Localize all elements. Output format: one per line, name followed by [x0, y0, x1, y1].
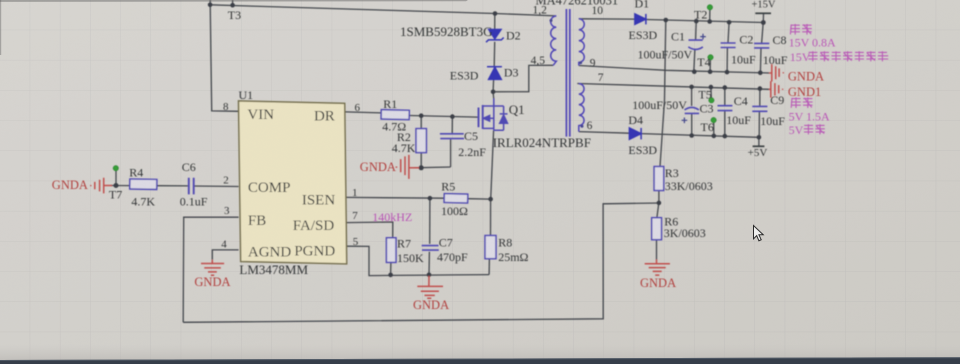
wire C5 top stub	[451, 117, 453, 134]
ground GND1 right side	[769, 81, 783, 98]
wire T5 stem	[710, 87, 712, 98]
wire R8 top lead	[490, 199, 492, 235]
ground GNDA right side	[769, 64, 784, 81]
ground GNDA below C7	[417, 276, 443, 298]
wire DR pin to R1	[346, 112, 382, 113]
junction C2 bottom	[725, 70, 730, 75]
wire D2 top lead	[494, 14, 496, 30]
mouse cursor	[754, 226, 764, 241]
wire pin 6 to D4	[579, 132, 630, 134]
capacitor C5 plates	[440, 134, 464, 139]
capacitor C3 plus sign	[682, 118, 688, 124]
wire primary bottom to switch node	[493, 65, 553, 92]
junction T2	[707, 19, 712, 24]
wire C2 bottom stub	[726, 48, 728, 73]
resistor R7	[386, 238, 396, 263]
capacitor C1 plus sign	[700, 34, 706, 40]
wire R8 bottom to pgnd rail	[488, 259, 490, 275]
wire C2 top stub	[728, 22, 729, 43]
wire C3 top stub	[691, 87, 693, 106]
junction T3 right	[230, 3, 235, 8]
junction T5	[709, 85, 714, 90]
wire T2 stem	[709, 10, 711, 22]
transformer primary winding	[551, 16, 557, 65]
wire R2 bottom lead	[420, 153, 422, 168]
wire C9 bottom stub	[758, 112, 760, 138]
wire stub up at T3 junction	[209, 0, 211, 5]
wire D3 to switch node	[492, 80, 495, 92]
wire D2-D3	[493, 42, 496, 67]
capacitor C4 plates	[718, 106, 733, 111]
wire pin 7 return rail	[577, 84, 769, 90]
wire COMP chain T7 to R4	[111, 185, 130, 187]
transformer phase dots	[550, 19, 553, 22]
diode D3 ES3D	[487, 67, 502, 80]
junction C5 top	[450, 114, 455, 119]
wire feedback tap vertical	[660, 20, 666, 167]
wire +5V port stem	[758, 137, 760, 146]
transformer secondary winding 5V	[579, 84, 584, 132]
resistor R5	[444, 194, 468, 203]
wire top-left horizontal (net T3)	[210, 5, 495, 14]
junction sense node	[488, 197, 493, 202]
wire FB bottom rail	[183, 203, 659, 322]
wire R5 to sense node	[468, 198, 491, 200]
junction R2 C5 gnd	[419, 165, 424, 170]
junction C8 bottom	[758, 71, 763, 76]
resistor R1	[381, 110, 409, 120]
diode D1 ES3D	[635, 14, 646, 25]
wire pin 10 to D1	[579, 18, 635, 20]
resistor R8	[485, 236, 496, 259]
wire R6 bottom lead	[656, 240, 658, 260]
capacitor C1 polarized plates	[688, 40, 703, 49]
wire junction to primary pin 1,2	[495, 14, 556, 16]
wire C1 top stub	[695, 21, 698, 40]
wire R4 to C6	[157, 185, 188, 187]
test point T7	[113, 166, 118, 171]
wire T4 stem	[709, 59, 711, 71]
wire C7 bottom stub	[428, 252, 430, 275]
junction D2 top	[493, 11, 498, 16]
wire D1 to +15V rail	[646, 20, 763, 23]
wire R1 to Q1 gate	[409, 116, 477, 118]
wire C8 bottom stub	[759, 48, 762, 73]
ground GNDA below R2	[396, 155, 420, 179]
junction C2 top	[727, 20, 732, 25]
ground GNDA below R6	[645, 260, 670, 276]
capacitor C8 plates	[754, 43, 769, 48]
wire C1 bottom stub	[694, 49, 695, 72]
junction switch node	[491, 90, 496, 95]
resistor R4	[130, 179, 157, 189]
resistor R3	[654, 167, 664, 191]
capacitor C3 polarized plates	[685, 107, 700, 113]
annotation hanzi 15V common-ground feedback	[790, 50, 888, 64]
wire C4 top stub	[724, 88, 726, 106]
junction T3 left	[208, 3, 213, 8]
test point T2	[707, 5, 712, 10]
wire AGND pin 4	[212, 250, 238, 260]
wire FB pin 3 left	[183, 217, 238, 322]
wire R2 gnd to C5 bottom	[414, 166, 451, 169]
wire R7 bottom lead	[390, 262, 392, 275]
transistor Q1 IRLR024NTRPBF	[479, 98, 508, 130]
power port +15V bar	[755, 12, 771, 14]
wire C4 bottom stub	[724, 111, 726, 136]
wire Q1 source to sense node	[491, 130, 494, 199]
test point T6	[711, 117, 716, 122]
junction R7 bottom	[388, 273, 393, 278]
resistor R6	[652, 218, 662, 240]
test point T5	[709, 98, 714, 103]
junction T6	[712, 134, 717, 139]
resistor R2	[416, 129, 426, 153]
wire R2 top lead	[420, 116, 422, 129]
wire pgnd rail	[346, 246, 490, 275]
wire D4 to +5V rail	[641, 134, 759, 138]
junction C8 +15V	[761, 20, 766, 25]
wire R6 top lead	[657, 203, 659, 218]
wire C3 bottom stub	[691, 114, 693, 136]
wire ISEN pin 1 to R5	[346, 196, 445, 199]
diode D4 ES3D	[629, 128, 641, 139]
capacitor C9 plates	[752, 106, 767, 111]
test point T4	[708, 55, 713, 60]
wire C9 top stub	[759, 89, 761, 107]
wire C6 to COMP pin 2	[194, 185, 238, 188]
annotation hanzi 5V isolated	[789, 123, 825, 137]
capacitor C6 plates	[189, 178, 194, 195]
junction feedback tap	[664, 18, 669, 23]
junction C3 top	[689, 85, 694, 90]
capacitor C7 plates	[422, 246, 439, 251]
wire VIN feed vertical	[210, 5, 238, 112]
junction T4	[708, 69, 713, 74]
wire C7 top stub	[429, 198, 431, 244]
power port +5V bar	[753, 145, 765, 147]
annotation hanzi manzai bottom	[791, 97, 813, 108]
wire C8 top stub	[762, 23, 764, 44]
junction C9 top	[758, 86, 763, 91]
junction C1 bottom	[692, 69, 697, 74]
junction C7 top	[428, 196, 433, 201]
junction C1 top	[694, 19, 699, 24]
capacitor C2 plates	[721, 43, 736, 48]
ground GNDA left of T7	[90, 178, 112, 194]
wire +15V port stem	[762, 13, 764, 22]
op-amp U1 LM3478MM body	[239, 101, 347, 264]
annotation hanzi manzai top	[790, 24, 812, 35]
wire R3 bottom lead	[658, 191, 660, 203]
junction C4 bottom	[723, 134, 728, 139]
junction C4 top	[723, 85, 728, 90]
junction C7 bottom	[427, 273, 432, 278]
junction T7	[114, 183, 119, 188]
wire C5 bottom stub	[450, 139, 452, 167]
wire FA/SD pin 7 to R7	[346, 222, 393, 238]
wire T7 stem	[115, 171, 117, 186]
zener D2 1SMB5928BT3G	[486, 30, 504, 43]
transformer T core	[566, 9, 569, 137]
wire T6 stem	[713, 122, 715, 135]
wire switch node to Q1 drain	[492, 92, 495, 99]
transformer secondary winding 15V	[579, 19, 584, 66]
junction C9 +5V	[757, 135, 762, 140]
wire stub up second junction	[232, 0, 234, 5]
ground GNDA below AGND pin	[201, 260, 224, 275]
junction R2 top	[419, 113, 424, 118]
wire pin 9 return rail	[579, 66, 769, 74]
junction C3 bottom	[689, 133, 694, 138]
junction R3 R6 node	[657, 201, 662, 206]
